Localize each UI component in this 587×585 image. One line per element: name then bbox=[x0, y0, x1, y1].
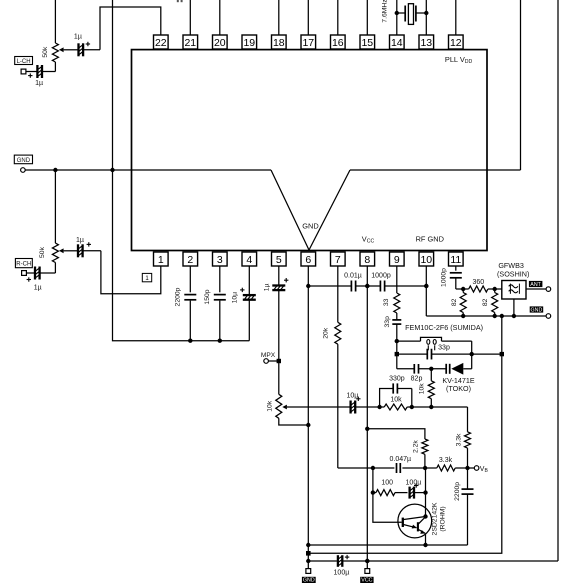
svg-text:9: 9 bbox=[394, 254, 400, 266]
svg-text:GND: GND bbox=[302, 222, 318, 231]
svg-text:RF GND: RF GND bbox=[416, 234, 444, 243]
svg-text:82p: 82p bbox=[411, 376, 423, 383]
svg-text:1µ: 1µ bbox=[264, 283, 271, 291]
svg-text:8: 8 bbox=[364, 254, 370, 266]
svg-text:(TOKO): (TOKO) bbox=[446, 384, 471, 393]
svg-text:11: 11 bbox=[450, 254, 461, 266]
svg-text:13: 13 bbox=[420, 37, 432, 49]
svg-text:MPX: MPX bbox=[261, 352, 276, 359]
svg-text:14: 14 bbox=[391, 37, 403, 49]
svg-text:(ROHM): (ROHM) bbox=[440, 506, 447, 531]
svg-text:33p: 33p bbox=[384, 316, 391, 328]
svg-text:1000p: 1000p bbox=[440, 268, 447, 287]
svg-text:10k: 10k bbox=[390, 397, 402, 404]
svg-text:3: 3 bbox=[217, 254, 223, 266]
svg-text:15: 15 bbox=[361, 37, 373, 49]
svg-text:20k: 20k bbox=[323, 327, 330, 339]
svg-text:3.3k: 3.3k bbox=[439, 457, 453, 464]
svg-text:22: 22 bbox=[155, 37, 167, 49]
svg-text:2200p: 2200p bbox=[175, 287, 182, 306]
svg-text:1: 1 bbox=[158, 254, 164, 266]
svg-text:0.01µ: 0.01µ bbox=[344, 272, 362, 279]
svg-text:10: 10 bbox=[420, 254, 432, 266]
svg-text:1µ: 1µ bbox=[35, 80, 43, 87]
svg-text:82: 82 bbox=[482, 298, 489, 306]
svg-text:2: 2 bbox=[187, 254, 193, 266]
svg-text:1µ: 1µ bbox=[34, 284, 42, 291]
svg-text:21: 21 bbox=[184, 37, 196, 49]
svg-text:3.3k: 3.3k bbox=[455, 433, 462, 446]
svg-text:ANT: ANT bbox=[530, 282, 541, 288]
svg-text:82: 82 bbox=[451, 298, 458, 306]
svg-text:10k: 10k bbox=[418, 383, 425, 395]
svg-text:7.6MHz: 7.6MHz bbox=[381, 0, 388, 23]
svg-text:100µ: 100µ bbox=[406, 479, 422, 486]
svg-text:7: 7 bbox=[335, 254, 341, 266]
svg-text:50k: 50k bbox=[39, 246, 46, 258]
svg-text:R-CH: R-CH bbox=[16, 262, 31, 268]
svg-text:GND: GND bbox=[303, 578, 315, 584]
svg-text:GND: GND bbox=[531, 307, 543, 313]
svg-text:150p: 150p bbox=[204, 289, 211, 304]
svg-text:20: 20 bbox=[214, 37, 226, 49]
svg-text:1µ: 1µ bbox=[74, 34, 82, 41]
svg-text:33p: 33p bbox=[438, 345, 450, 352]
svg-text:33: 33 bbox=[383, 298, 390, 306]
svg-text:16: 16 bbox=[332, 37, 344, 49]
svg-text:18: 18 bbox=[273, 37, 285, 49]
svg-text:4: 4 bbox=[246, 254, 252, 266]
svg-text:12: 12 bbox=[450, 37, 462, 49]
svg-text:VCC: VCC bbox=[361, 578, 372, 584]
svg-text:2SD2142K: 2SD2142K bbox=[432, 502, 439, 535]
svg-text:GND: GND bbox=[17, 158, 31, 164]
svg-text:10µ: 10µ bbox=[232, 292, 239, 304]
svg-text:0.047µ: 0.047µ bbox=[390, 456, 412, 463]
svg-text:1µ: 1µ bbox=[76, 237, 84, 244]
svg-text:2200p: 2200p bbox=[454, 482, 461, 501]
svg-text:10k: 10k bbox=[267, 400, 274, 412]
svg-text:17: 17 bbox=[302, 37, 314, 49]
svg-text:2.2k: 2.2k bbox=[412, 440, 419, 453]
svg-text:330p: 330p bbox=[389, 376, 405, 383]
svg-text:6: 6 bbox=[305, 254, 311, 266]
svg-text:1000p: 1000p bbox=[371, 272, 391, 279]
svg-text:360: 360 bbox=[472, 279, 484, 286]
svg-text:100µ: 100µ bbox=[334, 570, 350, 577]
svg-text:5: 5 bbox=[276, 254, 282, 266]
svg-text:100: 100 bbox=[381, 479, 393, 486]
svg-text:FEM10C-2F6 (SUMIDA): FEM10C-2F6 (SUMIDA) bbox=[405, 323, 483, 332]
svg-text:19: 19 bbox=[243, 37, 255, 49]
svg-text:VB: VB bbox=[480, 466, 489, 474]
svg-text:50k: 50k bbox=[42, 46, 49, 58]
svg-text:(SOSHIN): (SOSHIN) bbox=[497, 270, 529, 279]
svg-text:L-CH: L-CH bbox=[17, 59, 31, 65]
